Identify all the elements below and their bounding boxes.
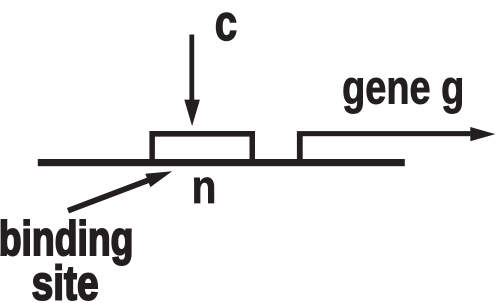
arrow from binding site label [67,171,172,213]
svg-text:c: c [215,0,237,51]
svg-text:gene g: gene g [342,61,464,114]
svg-text:site: site [32,256,99,303]
DNA line [38,159,405,166]
arrow from c (vertical down arrow) [184,35,200,127]
gene g transcription arrow [297,127,495,162]
svg-text:n: n [192,161,217,214]
binding site box n [149,131,255,163]
